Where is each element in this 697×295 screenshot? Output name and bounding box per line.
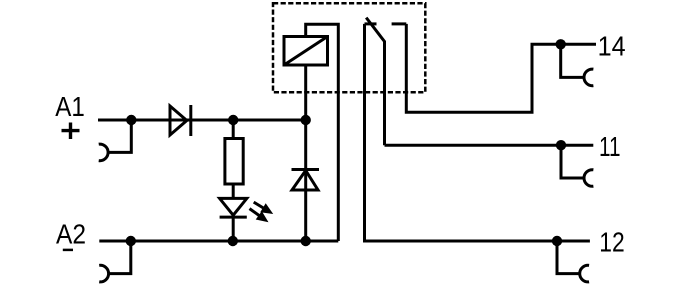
svg-text:A1: A1 [55,91,85,122]
wire A1 horizontal [98,119,306,122]
relay outline dashed box [273,3,425,92]
svg-text:12: 12 [599,226,624,257]
resistor R1 [225,139,243,185]
svg-text:A2: A2 [56,218,86,249]
wire resistor branch top [232,120,235,139]
junction dot 12 [552,236,562,246]
terminal clamp 12 [580,265,589,282]
wire NO contact to 14 [406,24,596,112]
junction dot A1-coil [301,115,311,125]
LED arrows [250,202,274,222]
terminal clamp 14 [584,69,593,86]
junction dot A2-LED [228,236,238,246]
wire 12 terminal drop [557,241,580,274]
switch pole bar [365,22,377,25]
junction dot A1-terminal [126,115,136,125]
wire resistor to LED [232,184,235,199]
wire switch pole to 12 [365,24,590,241]
relay coil K1 [284,37,328,66]
junction dot A2-diode [301,236,311,246]
diode D1 series [170,105,191,136]
switch contact bar NO [392,22,407,25]
wire A2 terminal drop [109,241,131,274]
junction dot A2-terminal [126,236,136,246]
label minus [63,249,73,252]
terminal clamp A2 [99,265,108,282]
junction dot 14 [556,39,566,49]
label plus [62,123,80,140]
wire freewheel diode branch [304,65,307,241]
wire 11 terminal drop [561,145,584,178]
wire coil top to A2 [306,24,339,241]
terminal clamp A1 [99,144,108,161]
freewheel diode V2 [292,170,320,191]
wire LED to A2 [232,217,235,241]
junction dot A1-resistor [228,115,238,125]
terminal clamp 11 [584,170,593,187]
svg-text:14: 14 [598,31,626,62]
wire A2 horizontal [99,240,338,243]
switch blade [366,18,384,146]
svg-text:11: 11 [599,131,621,162]
wire 14 terminal drop [561,44,584,77]
wire blade to 11 [385,144,594,147]
LED V1 [220,198,247,217]
junction dot 11 [556,140,566,150]
wire A1 terminal drop [108,120,131,152]
